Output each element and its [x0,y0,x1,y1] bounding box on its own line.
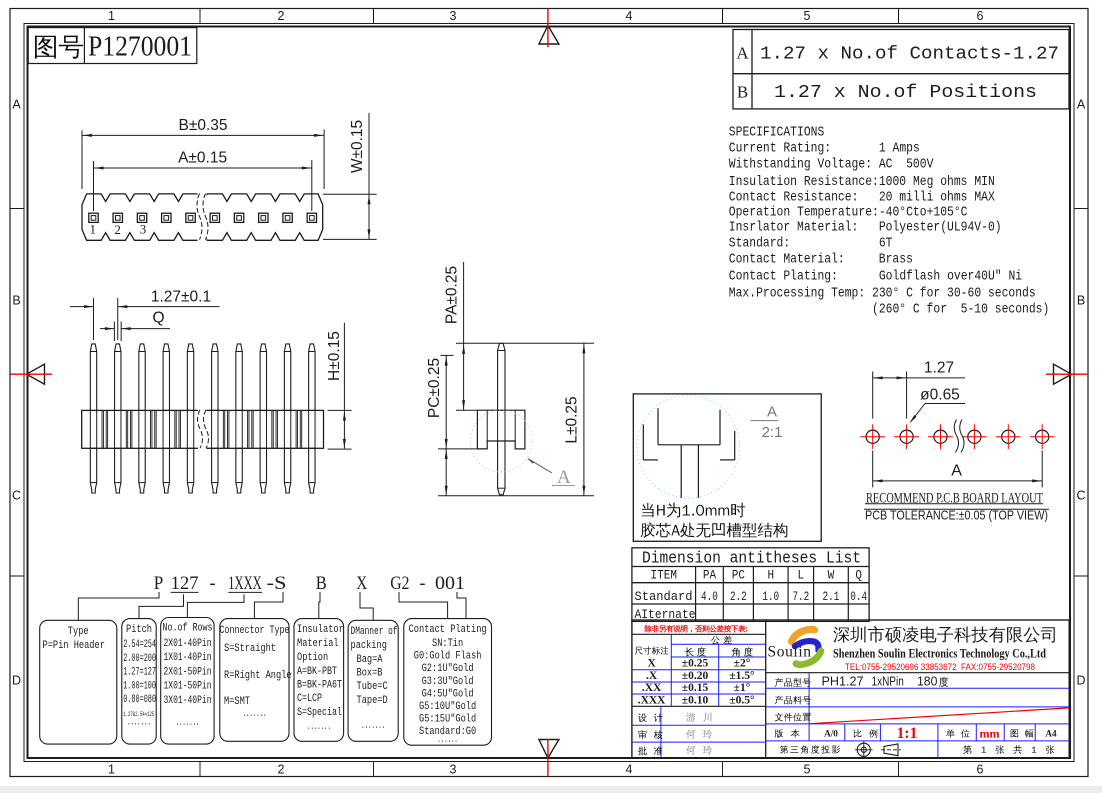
svg-text:A=BK-PBT: A=BK-PBT [297,666,337,678]
svg-text:1.27±0.1: 1.27±0.1 [151,289,211,306]
svg-text:S=Straight: S=Straight [224,643,276,655]
body foot extension line [438,448,477,450]
svg-text:7.2: 7.2 [792,589,809,604]
svg-text:1XXX: 1XXX [228,574,262,594]
approver row [638,746,663,755]
short extension at 355 [441,354,454,356]
svg-text:.XXX: .XXX [638,694,666,706]
svg-text:Soulin: Soulin [768,644,812,661]
svg-text:1.27=127: 1.27=127 [123,667,156,679]
svg-text:1X01-50Pin: 1X01-50Pin [164,681,212,693]
pcb break squiggle [954,420,958,453]
dimension list table [632,548,869,622]
dimension Q extension lines [113,322,115,342]
svg-text:TEL:0755-29520696 33853672 FA: TEL:0755-29520696 33853672 FAX:0755-2952… [845,662,1035,673]
svg-text:1.27 x No.of Contacts-1.27: 1.27 x No.of Contacts-1.27 [760,44,1059,65]
label scale [854,729,878,738]
svg-text:3: 3 [450,9,457,23]
dimension L line [583,343,585,495]
svg-text:2X01-50Pin: 2X01-50Pin [164,666,212,678]
part number underlines [171,591,199,593]
svg-text:H: H [767,569,774,583]
drawing number box [28,28,197,64]
svg-text:1.27 x No.of Positions: 1.27 x No.of Positions [774,82,1037,103]
svg-text:Operation Temperature:-40°Cto+: Operation Temperature:-40°Cto+105°C [729,206,968,221]
detail view box [633,394,821,541]
svg-text:5: 5 [804,9,811,23]
label product part no [775,696,811,705]
svg-text:A/0: A/0 [824,728,838,738]
svg-text:A: A [1077,98,1086,112]
svg-text:±0.15: ±0.15 [682,682,709,694]
svg-text:001: 001 [435,574,465,594]
svg-text:G5:15U″Gold: G5:15U″Gold [419,714,476,726]
pcb dimension A extension lines [872,450,874,487]
svg-text:H±0.15: H±0.15 [326,331,343,381]
svg-text:X: X [647,658,656,670]
svg-text:.XX: .XX [642,682,662,694]
tolerance header length [685,647,706,656]
svg-text:B=BK-PA6T: B=BK-PA6T [297,680,342,692]
pcb dimension A line [873,480,1042,482]
svg-text:1X01-40Pin: 1X01-40Pin [164,652,212,664]
dimension Q line [100,328,114,330]
svg-text:DManner of: DManner of [351,626,398,638]
svg-text:3: 3 [450,763,457,777]
svg-text:Contact Material: Brass: Contact Material: Brass [729,253,913,268]
svg-text:Bag=A: Bag=A [357,654,384,666]
svg-text:Material: Material [297,638,339,650]
svg-text:±0.25: ±0.25 [682,658,709,670]
dimension A line [94,167,312,169]
svg-text:Box=B: Box=B [357,668,383,680]
tree connector 1XXX [187,594,244,617]
svg-text:Type: Type [68,626,89,638]
tree box Connector Type [220,619,289,742]
tree box Manner of packing [348,620,398,741]
svg-text:3: 3 [140,222,147,237]
svg-text:·······: ······· [243,711,267,722]
svg-text:·······: ······· [307,724,331,735]
svg-text:D: D [12,674,21,688]
tree box No.of Rows [161,618,214,745]
svg-text:B: B [737,83,748,102]
svg-text:B±0.35: B±0.35 [178,117,227,134]
svg-text:A: A [736,44,749,63]
svg-text:6: 6 [977,763,984,777]
body thickness extension lines [328,409,352,411]
svg-text:±0.5°: ±0.5° [729,694,755,706]
centering mark right [1054,364,1072,384]
svg-text:M=SMT: M=SMT [224,696,250,708]
svg-text:±1.5°: ±1.5° [729,670,755,682]
svg-text:P=Pin Header: P=Pin Header [43,640,105,652]
svg-text:Dimension antitheses List: Dimension antitheses List [642,549,861,568]
tree connector S [254,592,283,619]
svg-text:A: A [767,404,777,421]
svg-text:Standard: 6T: Standard: 6T [729,237,893,252]
dimension 1.27 line [70,306,94,308]
tolerance header angle [732,647,753,656]
svg-text:±2°: ±2° [734,658,751,670]
pcb crosshairs [860,436,885,438]
svg-text:2: 2 [114,222,121,237]
svg-text:Pitch: Pitch [126,624,152,636]
svg-text:Q: Q [855,569,862,583]
svg-text:-S: -S [267,574,287,594]
svg-text:2:1: 2:1 [762,424,783,441]
label unit [946,729,970,738]
top view body outline [82,194,323,240]
company logo swoosh blue [795,641,819,650]
lower leg dimension arrows [445,449,447,496]
label tuhao [35,36,83,59]
svg-text:X: X [356,574,368,594]
svg-text:C: C [1076,489,1085,503]
detail geometry [657,408,659,445]
dimension PA line [463,262,465,410]
svg-text:2.54=254: 2.54=254 [123,639,156,651]
svg-text:(260° C for 5-10 seconds): (260° C for 5-10 seconds) [729,303,1050,318]
svg-text:Tape=D: Tape=D [357,695,388,707]
dimension H line [343,323,345,411]
svg-text:1: 1 [90,222,97,237]
svg-text:C=LCP: C=LCP [297,693,322,705]
svg-text:No.of Rows: No.of Rows [163,623,213,635]
svg-text:L: L [798,569,805,583]
svg-text:0.80=080: 0.80=080 [123,694,156,706]
centering mark top [539,26,559,45]
tolerance note red [645,625,747,632]
svg-text:A: A [557,467,571,488]
svg-text:Current Rating: 1 Amps: Current Rating: 1 Amps [729,142,920,157]
svg-text:180: 180 [917,674,937,689]
tolerance header gongcha [711,636,732,645]
svg-text:D: D [1076,674,1085,688]
label version [775,729,800,738]
tolerance header size label [635,646,669,654]
svg-text:2.00=200: 2.00=200 [123,653,156,665]
detail view circle [637,395,740,498]
svg-text:PC: PC [732,569,745,583]
svg-text:5: 5 [804,763,811,777]
svg-text:Withstanding Voltage: AC 500V: Withstanding Voltage: AC 500V [729,158,934,173]
svg-text:2: 2 [278,763,285,777]
svg-text:A: A [12,98,21,112]
body thickness arrows [343,411,345,449]
svg-text:±0.20: ±0.20 [682,670,709,682]
svg-text:A: A [951,463,962,480]
column ticks top [199,9,201,24]
formula table [733,30,1069,109]
svg-text:1.27&2.54=125: 1.27&2.54=125 [123,711,154,718]
tree box Insulator [294,619,344,742]
title block divider [765,620,767,758]
projection symbol target [857,743,870,756]
company logo swoosh orange [792,629,815,641]
tree box Pitch [122,619,156,745]
svg-text:6: 6 [977,9,984,23]
pcb holes [866,430,879,443]
version row dividers [844,724,846,741]
svg-text:mm: mm [980,727,1000,741]
svg-text:S=Special: S=Special [297,707,342,719]
company logo swoosh green [796,651,821,665]
tree connector X [360,592,373,620]
body top extension line [456,409,477,411]
tree connector G2 [399,592,448,619]
svg-text:1.0: 1.0 [762,589,779,604]
svg-text:W: W [828,569,835,583]
svg-text:-: - [420,574,426,594]
svg-text:3X01-40Pin: 3X01-40Pin [164,695,212,707]
svg-text:G5:10U″Gold: G5:10U″Gold [419,701,476,713]
dimension PC line [445,355,447,449]
svg-text:2.1: 2.1 [823,589,840,604]
svg-text:G2: G2 [390,574,409,594]
svg-text:.X: .X [646,670,658,682]
projection symbol cone [884,744,898,756]
svg-text:P: P [154,574,164,594]
svg-text:A4: A4 [1045,728,1057,738]
dimension W line [368,113,370,239]
svg-text:±0.10: ±0.10 [682,694,709,706]
svg-text:PH1.27: PH1.27 [822,674,864,689]
svg-text:0.4: 0.4 [850,589,867,604]
tree box Contact Plating [404,619,492,746]
label product model [775,678,811,687]
svg-text:1xNPin: 1xNPin [872,674,904,689]
svg-text:W±0.15: W±0.15 [349,120,366,173]
svg-text:2X01-40Pin: 2X01-40Pin [164,638,212,650]
svg-text:Connector Type: Connector Type [220,625,290,637]
svg-text:1.27: 1.27 [924,360,954,377]
single pin lower [498,441,505,495]
side view pins lower [90,448,96,493]
svg-text:Q: Q [152,310,164,327]
svg-text:ITEM: ITEM [651,569,677,583]
svg-text:······: ······ [437,737,457,748]
svg-text:·······: ······· [176,720,200,731]
title block outer border [632,620,1069,758]
detail circle A [470,410,532,472]
svg-text:Insulator: Insulator [297,624,344,636]
svg-text:PA±0.25: PA±0.25 [444,266,461,324]
svg-text:Tube=C: Tube=C [357,681,388,693]
label file location [775,713,811,722]
svg-text:Standard: Standard [635,589,693,604]
single pin body [477,410,525,449]
svg-text:Max.Processing Temp: 230° C fo: Max.Processing Temp: 230° C for 30-60 se… [729,287,1036,302]
svg-text:G0:Gold Flash: G0:Gold Flash [414,651,482,663]
label third angle projection [780,745,840,754]
svg-text:Insrlator Material: Polyeste: Insrlator Material: Polyester(UL94V-0) [729,221,1002,236]
svg-text:C: C [12,489,21,503]
centering mark left [27,364,45,384]
svg-text:B: B [316,574,327,594]
tree connector 001 [457,592,466,619]
svg-text:4: 4 [626,9,633,23]
svg-text:PCB TOLERANCE:±0.05 (TOP VIEW): PCB TOLERANCE:±0.05 (TOP VIEW) [865,508,1048,523]
file location red line [810,708,1069,724]
svg-text:B: B [12,294,20,308]
side view break lines [198,409,207,449]
detail note chinese [642,503,745,518]
tree connector B [319,592,320,619]
svg-text:127: 127 [171,574,199,594]
svg-text:PC±0.25: PC±0.25 [426,358,443,418]
tolerance table lines [632,633,766,635]
svg-text:ø0.65: ø0.65 [920,387,960,404]
dimension B extension lines [81,131,83,190]
svg-text:Contact Plating: Goldflas: Contact Plating: Goldflash over40U″ Ni [729,270,1022,285]
top view pins [89,213,98,222]
pcb dimension 1.27 extension lines [872,372,874,419]
dimension A extension lines [93,161,95,211]
svg-text:SN:Tin: SN:Tin [432,638,463,650]
pcb dimension 1.27 line [873,377,907,379]
side view insulator body [82,410,324,448]
svg-text:PA: PA [703,569,717,583]
svg-text:B: B [1077,294,1085,308]
company block bottom line [766,672,1069,674]
detail leader A [528,459,552,473]
svg-text:2: 2 [278,9,285,23]
svg-text:SPECIFICATIONS: SPECIFICATIONS [729,126,825,141]
checker row [638,730,662,739]
svg-text:packing: packing [351,640,387,652]
single pin upper [498,343,505,410]
svg-text:Insulation Resistance:1000 Meg: Insulation Resistance:1000 Meg ohms MIN [729,175,995,190]
svg-text:Shenzhen Soulin Electronics Te: Shenzhen Soulin Electronics Technology C… [833,647,1046,661]
top view break lines [198,193,207,241]
svg-text:4.0: 4.0 [701,589,718,604]
svg-text:G2:1U″Gold: G2:1U″Gold [422,663,474,675]
svg-text:Contact Plating: Contact Plating [409,624,487,636]
svg-text:P1270001: P1270001 [88,31,192,63]
svg-text:4: 4 [626,763,633,777]
svg-text:Option: Option [297,652,328,664]
svg-text:R=Right Angle: R=Right Angle [224,670,292,682]
svg-text:-: - [210,574,216,594]
tree connector P [78,592,159,620]
designer row [638,713,663,722]
svg-text:G4:5U″Gold: G4:5U″Gold [422,688,474,700]
svg-text:L±0.25: L±0.25 [564,396,581,443]
dimension W extension lines [323,193,377,195]
column ticks bottom [199,762,201,777]
dimension 1.27 extension lines [93,298,95,340]
row ticks left [10,208,24,210]
pin bottom extension line [438,495,594,497]
bottom row divider [937,741,939,758]
side view pins upper [90,344,96,411]
centering mark bottom [539,740,559,759]
svg-text:1: 1 [108,9,115,23]
svg-text:±1°: ±1° [734,682,751,694]
svg-text:1.00=100: 1.00=100 [123,680,156,692]
svg-text:G3:3U″Gold: G3:3U″Gold [422,676,474,688]
tree connector 127 [139,594,184,618]
svg-text:Contact Resistance: 20 milli: Contact Resistance: 20 milli ohms MAX [729,191,995,206]
svg-text:1:1: 1:1 [897,725,918,742]
tree box Type [40,620,117,744]
pin top extension line [456,342,594,344]
svg-text:A±0.15: A±0.15 [178,150,227,167]
svg-text:·······: ······· [127,720,151,731]
svg-text:·······: ······· [361,723,385,734]
dimension B line [82,134,324,136]
row ticks right [1074,208,1088,210]
label sheet size [1011,729,1034,737]
sheet count [963,745,1054,754]
company name chinese [833,626,1055,643]
svg-text:1: 1 [108,763,115,777]
svg-text:2.2: 2.2 [730,589,747,604]
product rows lines [766,687,1069,689]
